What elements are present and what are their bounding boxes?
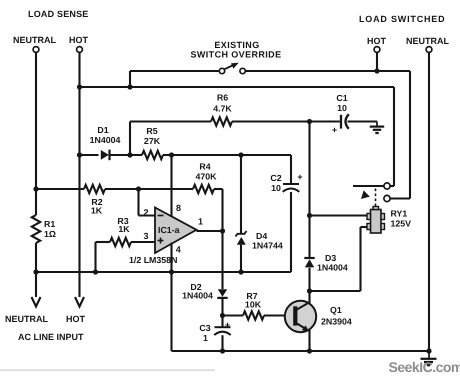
- scan artifact bottom streak: [0, 369, 215, 371]
- wire R7 left: [223, 314, 244, 316]
- node D2/R7: [220, 313, 225, 318]
- relay contact arrow: [361, 190, 370, 199]
- wire x410 vertical: [409, 71, 411, 199]
- wire pin2 branch: [137, 189, 139, 216]
- svg-text:125V: 125V: [391, 219, 412, 229]
- svg-text:SWITCH OVERRIDE: SWITCH OVERRIDE: [190, 50, 281, 60]
- node C3/bottom rail: [220, 348, 225, 353]
- resistor R3: [110, 238, 131, 246]
- wire ground rail: [36, 271, 291, 273]
- wire hot sense vertical: [78, 52, 80, 297]
- svg-text:HOT: HOT: [66, 314, 86, 324]
- relay actuation dashed link: [375, 189, 377, 208]
- diode D1: [101, 150, 109, 160]
- wire Q1 emitter: [308, 330, 310, 351]
- svg-text:4: 4: [176, 245, 181, 255]
- node D1/R6 junction: [127, 152, 132, 157]
- svg-text:470K: 470K: [195, 172, 217, 182]
- terminal NEUTRAL load-switched: [426, 47, 432, 53]
- node emitter/bottom rail: [307, 348, 312, 353]
- svg-text:EXISTING: EXISTING: [214, 40, 259, 50]
- node hot/y87: [77, 84, 82, 89]
- node pin4/rail: [169, 269, 174, 274]
- wire R6 to C1: [232, 120, 340, 122]
- svg-text:C2: C2: [270, 173, 281, 183]
- wire override left: [130, 70, 219, 72]
- capacitor C2: [283, 183, 299, 185]
- wire R4 right corner: [214, 188, 223, 190]
- relay contact upper: [384, 183, 390, 189]
- terminal HOT load-sense: [77, 47, 83, 53]
- svg-text:SeekIC.com: SeekIC.com: [389, 359, 460, 375]
- wire neutral sense vertical (bottom): [35, 243, 37, 297]
- svg-text:AC LINE INPUT: AC LINE INPUT: [18, 332, 84, 342]
- resistor R2: [84, 185, 105, 193]
- svg-text:RY1: RY1: [391, 209, 408, 219]
- svg-text:NEUTRAL: NEUTRAL: [13, 35, 56, 45]
- node y87/override corner: [127, 84, 132, 89]
- node output junction: [220, 228, 225, 233]
- svg-text:1: 1: [203, 333, 208, 343]
- wire R3 corner: [96, 241, 111, 243]
- wire C1 to ground: [348, 120, 378, 122]
- arrow neutral to AC line: [32, 297, 41, 307]
- node R6/D3 branch: [307, 119, 312, 124]
- wire R6 line left: [130, 120, 211, 122]
- node hot/v+ line: [77, 152, 82, 157]
- wire D2 to C3: [221, 298, 223, 327]
- svg-text:1N4004: 1N4004: [90, 135, 121, 145]
- op-amp IC1-a: [155, 208, 197, 254]
- svg-text:2N3904: 2N3904: [321, 317, 352, 327]
- relay RY1 coil: [371, 210, 382, 234]
- node override/switched-hot: [374, 68, 379, 73]
- svg-text:10: 10: [271, 183, 281, 193]
- resistor R1: [32, 215, 40, 243]
- wire override right: [246, 70, 411, 72]
- relay contact lower: [384, 195, 390, 201]
- arrow hot to AC line: [75, 297, 84, 307]
- svg-text:1: 1: [198, 217, 203, 227]
- svg-text:1N4004: 1N4004: [182, 291, 213, 301]
- svg-text:HOT: HOT: [69, 35, 89, 45]
- svg-text:8: 8: [176, 203, 181, 213]
- svg-text:R5: R5: [146, 126, 157, 136]
- svg-text:1/2 LM358N: 1/2 LM358N: [129, 255, 177, 265]
- svg-text:NEUTRAL: NEUTRAL: [5, 314, 48, 324]
- svg-text:1N4744: 1N4744: [252, 241, 283, 251]
- wire bottom rail: [172, 350, 430, 352]
- svg-text:3: 3: [144, 231, 149, 241]
- svg-text:C3: C3: [199, 323, 210, 333]
- svg-text:D3: D3: [325, 253, 336, 263]
- diode D3: [304, 257, 314, 259]
- wire relay coil bottom return: [361, 226, 369, 228]
- wire output pin1: [197, 230, 223, 232]
- svg-text:R6: R6: [217, 93, 228, 103]
- svg-text:1Ω: 1Ω: [44, 229, 56, 239]
- svg-text:+: +: [332, 125, 337, 135]
- wire D3 branch upper: [308, 122, 310, 258]
- wire C2 top: [290, 155, 292, 184]
- node R2/pin2: [136, 186, 141, 191]
- diode D2: [218, 289, 227, 297]
- node v+/pin8: [169, 152, 174, 157]
- resistor R7: [243, 311, 264, 319]
- node D3/relay coil: [307, 213, 312, 218]
- svg-text:10K: 10K: [245, 300, 262, 310]
- transistor Q1: [285, 301, 316, 332]
- node D4/rail: [238, 269, 243, 274]
- wire switched neutral vertical: [428, 52, 430, 351]
- terminal HOT load-switched: [374, 47, 380, 53]
- svg-text:1K: 1K: [91, 206, 103, 216]
- wire neutral sense vertical (top): [35, 52, 37, 215]
- svg-text:D4: D4: [256, 231, 267, 241]
- node neutral/R2: [33, 186, 38, 191]
- wire R6 corner vertical: [129, 122, 131, 156]
- resistor R5: [142, 151, 163, 159]
- svg-text:1N4004: 1N4004: [317, 263, 348, 273]
- resistor R6: [211, 117, 232, 125]
- svg-text:LOAD SENSE: LOAD SENSE: [28, 9, 89, 19]
- svg-text:2: 2: [144, 208, 149, 218]
- wire C3 bottom: [221, 335, 223, 351]
- wire output to D2: [221, 231, 223, 289]
- wire R2 to R4: [105, 188, 193, 190]
- wire y87 hot to relay contact: [80, 86, 395, 88]
- wire R2 line left: [36, 188, 84, 190]
- node collector/relay bottom: [307, 288, 312, 293]
- svg-text:IC1-a: IC1-a: [158, 225, 180, 235]
- svg-text:NEUTRAL: NEUTRAL: [406, 36, 449, 46]
- wire D1 to R5: [110, 154, 142, 156]
- ground (bottom right): [428, 351, 430, 358]
- svg-text:C1: C1: [336, 93, 347, 103]
- svg-text:+: +: [297, 172, 302, 182]
- wire D3 to collector node: [308, 268, 310, 291]
- wire R3 to pin3: [131, 241, 155, 243]
- ground (C1): [376, 122, 378, 127]
- svg-text:R1: R1: [44, 219, 55, 229]
- svg-text:LOAD SWITCHED: LOAD SWITCHED: [359, 14, 445, 24]
- resistor R4: [193, 185, 214, 193]
- wire relay coil top feed: [310, 214, 368, 216]
- switch S1 existing override: [219, 68, 224, 73]
- wire override corner vertical: [129, 71, 131, 87]
- svg-text:+: +: [225, 320, 230, 330]
- wire R7 to base: [264, 314, 294, 316]
- wire Q1 collector: [308, 291, 310, 303]
- svg-text:Q1: Q1: [330, 305, 342, 315]
- node bottom-right: [426, 348, 431, 353]
- node v+/D4: [238, 152, 243, 157]
- relay contact arm: [353, 185, 384, 187]
- svg-text:R4: R4: [199, 162, 210, 172]
- wire v+ line left: [80, 154, 99, 156]
- wire pin8 supply: [170, 155, 172, 217]
- capacitor C3: [215, 326, 231, 328]
- zener D4: [240, 155, 242, 234]
- svg-text:D1: D1: [97, 125, 108, 135]
- wire pin4 ground: [170, 243, 172, 273]
- node neutral/rail: [33, 269, 38, 274]
- terminal NEUTRAL load-sense: [33, 47, 39, 53]
- svg-text:1K: 1K: [118, 224, 130, 234]
- svg-text:HOT: HOT: [367, 36, 387, 46]
- wire switched-hot stub: [376, 52, 378, 71]
- svg-text:10: 10: [337, 103, 347, 113]
- wire C2 bottom: [290, 192, 292, 272]
- capacitor C1: [340, 115, 342, 129]
- wire R5 to C2 corner: [163, 154, 291, 156]
- node R3/rail: [93, 269, 98, 274]
- wire rail-to-bottom vertical: [170, 272, 172, 351]
- wire x394 vertical: [393, 87, 395, 186]
- svg-text:4.7K: 4.7K: [213, 104, 232, 114]
- svg-text:27K: 27K: [144, 136, 161, 146]
